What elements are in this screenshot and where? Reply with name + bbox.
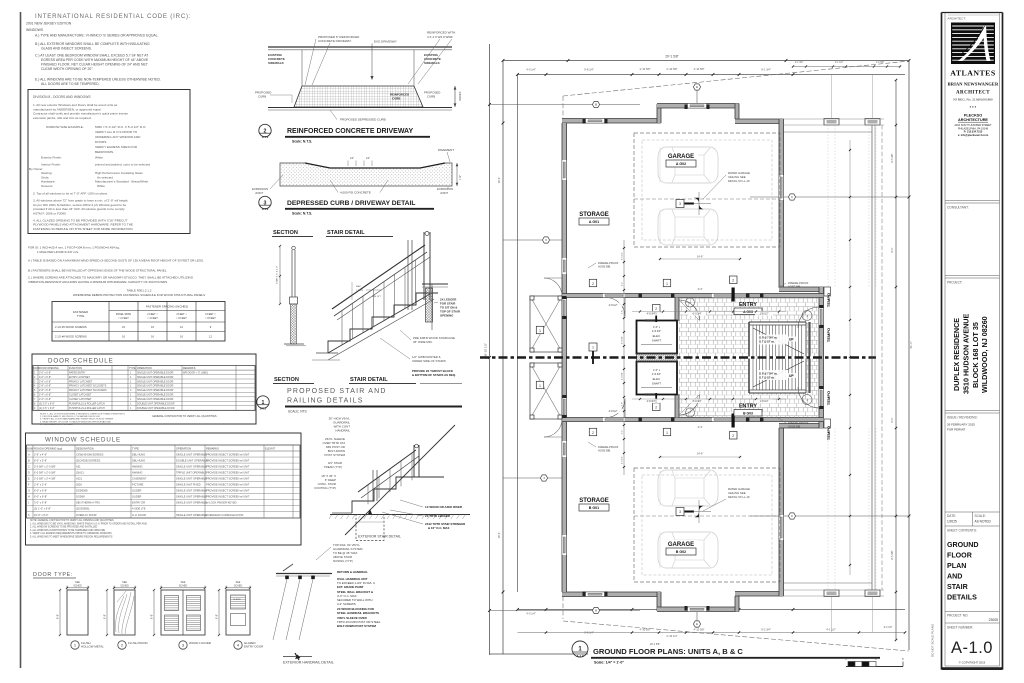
svg-text:POST SYSTEM: POST SYSTEM [324,453,345,457]
svg-text:ELEVNT: ELEVNT [265,446,276,450]
svg-text:PICTURE: PICTURE [132,483,144,487]
svg-text:2'-0 5/8" x 2'-4 3/8": 2'-0 5/8" x 2'-4 3/8" [34,476,56,480]
svg-text:CURB: CURB [392,97,400,101]
svg-text:A-1.0: A-1.0 [951,639,993,657]
svg-text:DOUBLE UNIT OPERABLE: DOUBLE UNIT OPERABLE [176,458,208,462]
svg-text:SINGLE UNIT OPERABLE: SINGLE UNIT OPERABLE [176,513,207,517]
svg-text:White: White [97,184,105,188]
svg-text:CXW145-E66 EGRESS: CXW145-E66 EGRESS [76,452,104,456]
svg-text:UP: UP [789,338,794,342]
svg-text:NUM: NUM [27,446,33,450]
entry door leaf A [732,288,735,302]
window schedule table [26,433,302,545]
svg-text:Scale: N.T.S.: Scale: N.T.S. [292,212,312,216]
svg-text:14'-6": 14'-6" [697,255,704,259]
svg-text:GARAGE: GARAGE [668,542,694,548]
svg-text:41'-1": 41'-1" [909,341,913,349]
svg-text:1: 1 [539,384,541,388]
svg-text:SHAFT: SHAFT [652,339,661,343]
svg-text:6'-0 3/4": 6'-0 3/4" [693,400,702,403]
svg-text:9'-2 3/4": 9'-2 3/4" [761,628,771,632]
svg-text:2'-8" x 6'-8": 2'-8" x 6'-8" [39,389,51,392]
svg-text:4'-10 5/8": 4'-10 5/8" [694,628,705,632]
svg-text:VERIFY ALL R.O.S PRIOR TO: VERIFY ALL R.O.S PRIOR TO [95,130,138,134]
division 8 notes box [28,90,190,234]
newel post section [292,246,296,250]
elev lobby door arc B [679,395,700,416]
svg-text:UNDER SIDE OF STAIRS: UNDER SIDE OF STAIRS [412,359,446,363]
svg-text:▪ ▪ ▪: ▪ ▪ ▪ [970,104,977,109]
svg-text:1X WOOD OR AZEK RISER: 1X WOOD OR AZEK RISER [425,505,463,509]
svg-text:ELEV.: ELEV. [653,377,661,381]
svg-text:TYPE: TYPE [132,446,139,450]
svg-text:FREEZE-PROOF: FREEZE-PROOF [598,261,619,265]
svg-text:NOSING (TYP): NOSING (TYP) [333,559,353,563]
svg-text:H: H [28,495,30,499]
svg-text:6 FEET <: 6 FEET < [205,313,216,316]
stair A well [749,322,806,357]
svg-text:SCHED: SCHED [234,585,243,588]
east wall lower [779,428,784,582]
svg-text:AWNING: AWNING [132,470,143,474]
svg-text:GARAGE: GARAGE [668,154,694,160]
NE corner post [779,119,784,133]
issue box [945,410,1000,412]
svg-text:e: info@plecksoarch.com: e: info@plecksoarch.com [958,134,989,137]
svg-text:VARIES: VARIES [458,91,462,101]
svg-text:< 4 FEET: < 4 FEET [147,317,158,320]
date scale box [945,511,1000,513]
svg-text:1'-6": 1'-6" [459,175,462,180]
svg-text:JOINT: JOINT [440,191,448,195]
svg-text:A G03: A G03 [743,310,753,314]
svg-text:G: G [28,489,30,493]
svg-text:UP: UP [789,374,794,378]
svg-text:EXTERIOR HANDRAIL DETAIL: EXTERIOR HANDRAIL DETAIL [283,661,334,665]
svg-text:1/2025: 1/2025 [947,520,957,524]
svg-text:DETAIL 5X LL-10: DETAIL 5X LL-10 [728,495,750,499]
SE corner post [779,582,784,596]
svg-text:A-1.0: A-1.0 [576,654,584,658]
svg-text:2. ALL WINDOW SCREENS TO BE PR: 2. ALL WINDOW SCREENS TO BE PROVIDED AND… [30,526,98,529]
svg-text:3'-0" x 6'-8": 3'-0" x 6'-8" [34,501,47,505]
svg-text:1'-8 1/2": 1'-8 1/2" [760,313,769,316]
svg-text:4'-5 1/2": 4'-5 1/2" [622,456,624,464]
svg-text:JOINT: JOINT [255,191,263,195]
svg-text:2 1/2 #8 WOOD SCREWS: 2 1/2 #8 WOOD SCREWS [55,334,87,338]
svg-text:DBL HUNG: DBL HUNG [132,458,145,462]
consultant box [945,200,1000,202]
svg-text:SIDEWALK: SIDEWALK [424,61,441,65]
entry east walls connect [779,287,824,292]
west wall [562,123,567,592]
svg-text:4 SIDE LTE: 4 SIDE LTE [132,507,146,511]
svg-text:B G02: B G02 [676,550,686,554]
post extension lines to dim rows [831,75,833,119]
svg-text:3: 3 [679,202,681,206]
east deck dashed overhang [881,125,883,590]
extra jamb marks [639,294,642,298]
svg-text:BRIAN NEWSWANGER: BRIAN NEWSWANGER [948,82,999,87]
svg-text:S80 /THERM-A-TRU: S80 /THERM-A-TRU [76,501,100,505]
svg-text:C: C [791,195,793,199]
east porch posts bottom [824,590,839,597]
svg-text:SINGLE UNIT OPERABLE DOOR: SINGLE UNIT OPERABLE DOOR [137,385,174,388]
svg-text:TYPE: TYPE [129,367,136,370]
elev lobby door arc A [679,300,700,321]
svg-text:SINGLE UNIT OPERABLE: SINGLE UNIT OPERABLE [176,476,207,480]
svg-text:9'-2 1/8": 9'-2 1/8" [884,627,893,629]
svg-text:3'-2": 3'-2" [622,430,624,435]
stair B treads [752,359,754,391]
stair A treads [752,325,754,357]
svg-text:CLOSET LATCHSET: CLOSET LATCHSET [69,398,92,401]
garage A label [664,152,698,159]
svg-text:PANEL SPAN: PANEL SPAN [116,313,131,316]
svg-text:FREEZE-PROOF: FREEZE-PROOF [788,421,809,425]
svg-text:SINGLE UNIT OPERABLE: SINGLE UNIT OPERABLE [176,452,207,456]
grid hexagons [490,104,641,106]
svg-text:ENTRY LATCHSET: ENTRY LATCHSET [69,376,91,379]
svg-text:PAVEMENT: PAVEMENT [438,148,454,152]
svg-text:4'-8 3/4": 4'-8 3/4" [652,373,661,376]
logo A glyph [958,26,991,62]
svg-text:2: 2 [655,406,657,410]
svg-text:SGD68: SGD68 [76,495,85,499]
svg-text:5. ALL WINDOWS TO MEET WINDBOR: 5. ALL WINDOWS TO MEET WINDBORNE DEBRIS … [30,536,113,539]
svg-text:REINFORCED CONCRETE DRIVEWAY: REINFORCED CONCRETE DRIVEWAY [287,128,413,135]
svg-text:1. ALL WINDOWS TO BE VINYL WI: 1. ALL WINDOWS TO BE VINYL WINDOWS, WHIT… [30,522,148,525]
svg-text:2: 2 [732,434,734,438]
svg-text:HOSE BIB: HOSE BIB [598,449,611,453]
svg-text:2'-4" x 6'-8": 2'-4" x 6'-8" [39,394,51,397]
handrail section mark [283,656,312,658]
svg-text:& 16" O.C. MAX: & 16" O.C. MAX [428,526,450,530]
svg-text:SINGLE UNIT OPERABLE DOOR: SINGLE UNIT OPERABLE DOOR [137,394,174,397]
svg-text:SINGLE UNIT OPERABLE: SINGLE UNIT OPERABLE [176,489,207,493]
svg-text:E: E [28,476,30,480]
svg-text:SINGLE UNIT OPERABLE DOOR: SINGLE UNIT OPERABLE DOOR [137,376,174,379]
svg-text:A21: A21 [76,464,81,468]
front door arc A [798,307,819,328]
svg-text:3. ALL WINDOWS IN BATHROOMS TO: 3. ALL WINDOWS IN BATHROOMS TO BE TEMPER… [30,529,106,532]
svg-text:4'-8 3/4": 4'-8 3/4" [622,336,624,344]
svg-text:E: E [696,85,698,89]
graphic scale bar [846,666,903,668]
east deck edge [871,125,873,590]
svg-text:4. HEAD HEIGHT OF DOOR TO MATC: 4. HEAD HEIGHT OF DOOR TO MATCH WINDOWS … [40,420,111,423]
svg-text:1: 1 [592,346,594,350]
svg-text:SINGLE UNIT OPERABLE: SINGLE UNIT OPERABLE [176,501,207,505]
svg-text:B.) FASTENERS SHALL BE INSTALL: B.) FASTENERS SHALL BE INSTALLED AT OPPO… [28,269,167,273]
svg-text:E.) ALL WINDOWS ARE TO BE NON: E.) ALL WINDOWS ARE TO BE NON-TEMPERED U… [35,78,161,82]
svg-text:5050 = 5'-0 1/2" R.O. X 5'-0 1: 5050 = 5'-0 1/2" R.O. X 5'-0 1/2" R.O. [95,125,146,129]
svg-text:4'-1 1/2": 4'-1 1/2" [826,628,836,632]
svg-text:C.) AT LEAST ONE BEDROOM WIND: C.) AT LEAST ONE BEDROOM WINDOW SHALL EX… [35,54,148,58]
svg-text:w/ LOCK FINGER-KEYED: w/ LOCK FINGER-KEYED [206,501,237,505]
svg-text:© COPYRIGHT 2019: © COPYRIGHT 2019 [959,661,986,665]
svg-text:2'-6" x 4'-6": 2'-6" x 4'-6" [34,452,47,456]
svg-text:GLASS AND INSECT SCREENS.: GLASS AND INSECT SCREENS. [41,47,92,51]
svg-text:HOSE BIB: HOSE BIB [598,265,611,269]
garage A dashed boundary [634,133,780,247]
svg-text:CLOSET LATCHSET: CLOSET LATCHSET [69,394,92,397]
svg-text:TEMPO: TEMPO [826,328,831,342]
svg-text:A: A [28,452,30,456]
svg-text:STAIR 3'-6" & 3'-0": STAIR 3'-6" & 3'-0" [276,266,279,284]
svg-text:A G02: A G02 [676,162,686,166]
west wall porch door B [562,397,567,417]
svg-text:TEMPO: TEMPO [826,426,831,440]
title block borders [941,13,943,670]
svg-text:WINDBORNE DEBRIS PROTECTION FA: WINDBORNE DEBRIS PROTECTION FASTENING SC… [73,293,205,297]
svg-text:WINDOW SIZE EXAMPLE:: WINDOW SIZE EXAMPLE: [46,125,84,129]
keynote 2 boxes at elevator [653,305,661,313]
svg-text:2: 2 [655,307,657,311]
svg-text:4'-1 3/4": 4'-1 3/4" [795,62,804,64]
svg-text:3510 HUDSON AVENUE: 3510 HUDSON AVENUE [961,314,970,394]
svg-text:2 1/2 #6 WOOD SCREWS: 2 1/2 #6 WOOD SCREWS [55,325,87,329]
svg-text:(2)S2068SL: (2)S2068SL [76,507,90,511]
svg-text:5. FIBERGLASS DOOR INSTALL: 5. FIBERGLASS DOOR INSTALL [40,423,73,426]
svg-text:TEMPO: TEMPO [826,391,831,405]
unit A north wall low band [562,119,661,124]
svg-text:DETAIL 5X LL-10: DETAIL 5X LL-10 [728,179,750,183]
svg-text:(2)CH3050 EGRESS: (2)CH3050 EGRESS [76,458,100,462]
svg-text:B: B [595,609,597,613]
svg-text:ENTRY: ENTRY [739,404,757,410]
svg-text:36" WIDE MIN.: 36" WIDE MIN. [413,340,433,344]
svg-text:(2) 1'-0" x 6'-8": (2) 1'-0" x 6'-8" [34,507,51,511]
svg-text:STAIR DETAIL: STAIR DETAIL [327,230,365,236]
plan outer dimension boundary [489,44,491,655]
door schedule table [32,354,256,424]
svg-text:SINGLE UNIT FIXED: SINGLE UNIT FIXED [176,483,201,487]
svg-text:11 R @ 7 3/4" ea.: 11 R @ 7 3/4" ea. [759,373,778,376]
svg-text:SINGLE UNIT OPERABLE DOOR: SINGLE UNIT OPERABLE DOOR [137,371,174,374]
svg-text:DO NOT SCALE PLANS: DO NOT SCALE PLANS [931,624,935,657]
svg-text:8'-5 3/8": 8'-5 3/8" [891,550,894,559]
svg-text:SHAFT: SHAFT [652,382,661,386]
interior dim chain vertical right [849,140,851,575]
svg-text:SINGLE UNIT OPERABLE DOOR: SINGLE UNIT OPERABLE DOOR [137,398,174,401]
svg-text:PROVIDE INSECT SCREEN w/ UNIT: PROVIDE INSECT SCREEN w/ UNIT [206,495,250,499]
svg-text:STEEL HANDRAIL BRACKETS: STEEL HANDRAIL BRACKETS [337,611,379,615]
svg-text:2'-4": 2'-4" [698,426,703,429]
svg-text:DOOR SCHEDULE: DOOR SCHEDULE [48,358,114,365]
svg-text:PRIVACY LATCHSET: PRIVACY LATCHSET [69,380,93,383]
east wall upper [779,133,784,287]
svg-text:Interior Finish:: Interior Finish: [41,163,61,167]
svg-text:RETURN & HANDRAIL: RETURN & HANDRAIL [337,570,368,574]
svg-text:2'-8": 2'-8" [622,310,624,315]
entry west wall segment A [675,298,679,322]
svg-text:A221: A221 [76,476,83,480]
entry door leaf B [732,414,735,428]
wall jamb marks [583,119,586,124]
svg-text:TREAD (TYP): TREAD (TYP) [324,465,342,469]
garage A north wall [657,104,739,109]
svg-text:PRIVACY LATCHSET S/CLOSETS: PRIVACY LATCHSET S/CLOSETS [69,385,107,388]
deck post guide dotted lines [827,125,829,287]
svg-text:4. VERIFY ALL EGRESS REQUIREME: 4. VERIFY ALL EGRESS REQUIREMENTS PRIOR … [30,532,112,535]
svg-text:WINDOW SCHEDULE: WINDOW SCHEDULE [45,437,121,444]
svg-text:NOTE: 1. ALL DOOR HOUSE/SHIEL: NOTE: 1. ALL DOOR HOUSE/SHIELD HINGES/CL… [40,413,125,416]
svg-text:PROVIDE INSECT SCREEN w/ UNIT: PROVIDE INSECT SCREEN w/ UNIT [206,452,250,456]
svg-text:3. VERIFY ALL DOOR HARDWARE AN: 3. VERIFY ALL DOOR HARDWARE AND FINISH S… [40,418,114,421]
keynote 2 at entry doors [730,276,738,284]
svg-text:SINGLE UNIT OPERABLE DOOR: SINGLE UNIT OPERABLE DOOR [137,380,174,383]
svg-text:3-2" SCREWS: 3-2" SCREWS [337,602,356,606]
svg-text:STORAGE: STORAGE [579,498,609,504]
svg-text:SCALE: NTS: SCALE: NTS [288,410,307,414]
svg-text:CURB: CURB [258,95,266,99]
svg-text:D: D [28,470,30,474]
svg-text:2. Top of all windows to be at: 2. Top of all windows to be at 7'-0" AFF… [33,192,108,196]
svg-text:SLIDER: SLIDER [132,495,141,499]
svg-text:1'-8 1/2": 1'-8 1/2" [760,400,769,403]
svg-text:4'-10 5/8": 4'-10 5/8" [640,67,651,71]
svg-text:SINGLE UNIT OPERABLE: SINGLE UNIT OPERABLE [176,464,207,468]
svg-text:12: 12 [209,334,212,338]
svg-text:ELEV.: ELEV. [653,334,661,338]
svg-text:RAILING DETAILS: RAILING DETAILS [287,398,364,405]
unit B south wall jog [657,592,661,611]
svg-text:PROVIDE INSECT SCREEN w/ UNIT: PROVIDE INSECT SCREEN w/ UNIT [206,470,250,474]
svg-text:TYPE: TYPE [77,314,85,318]
stair landing edges [805,322,807,357]
svg-text:White: White [95,156,103,160]
svg-text:DIVISION 8 - DOORS AND WINDOWS: DIVISION 8 - DOORS AND WINDOWS [33,95,91,99]
svg-text:extension jambs, sills and tri: extension jambs, sills and trim as requi… [33,116,92,120]
west porch deck B [530,363,562,419]
porch door arc A [544,278,562,296]
svg-text:PROVIDE INSECT SCREEN w/ UNIT: PROVIDE INSECT SCREEN w/ UNIT [206,489,250,493]
svg-text:DESIGNATION: DESIGNATION [76,446,94,450]
svg-text:FREEZE-PROOF: FREEZE-PROOF [598,445,619,449]
party wall hatched center [637,354,678,362]
svg-text:3'-0" x 6'-8": 3'-0" x 6'-8" [39,376,51,379]
svg-text:16: 16 [151,334,154,338]
svg-text:TEMPO: TEMPO [826,293,831,307]
svg-text:4 X 4 X W2.9 WWF: 4 X 4 X W2.9 WWF [427,35,453,39]
svg-text:GROUND FLOOR PLANS: UNITS A, B: GROUND FLOOR PLANS: UNITS A, B & C [593,647,743,656]
reinforced concrete driveway detail [268,46,452,48]
svg-text:FREEZE-PROOF: FREEZE-PROOF [788,281,809,285]
svg-text:PROVIDE INSECT SCREEN w/ UNIT: PROVIDE INSECT SCREEN w/ UNIT [206,476,250,480]
svg-text:2'-10 5/8": 2'-10 5/8" [667,67,678,71]
svg-text:DBL HUNG: DBL HUNG [132,452,145,456]
svg-text:PLAN: PLAN [947,562,966,570]
svg-text:CONSULTANT:: CONSULTANT: [947,206,969,210]
east porch mid posts [824,287,831,296]
svg-text:< 8 FEET: < 8 FEET [205,317,216,320]
svg-text:O.H. DOOR: O.H. DOOR [132,513,146,517]
garage B dashed boundary [634,468,780,582]
svg-text:< 6 FEET: < 6 FEET [176,317,187,320]
svg-text:8'-1": 8'-1" [891,247,894,252]
svg-text:26 FEBRUARY 2025: 26 FEBRUARY 2025 [947,423,975,427]
sheet left border [20,12,22,668]
exterior handrail detail drawing [276,573,332,575]
svg-text:SECTION: SECTION [273,230,298,236]
svg-text:AWNING: AWNING [132,464,143,468]
svg-text:4,000 PSI CONCRETE: 4,000 PSI CONCRETE [340,191,371,195]
svg-text:4'-5 1/2": 4'-5 1/2" [622,252,624,260]
plan title [572,641,588,657]
svg-text:2: 2 [592,431,594,435]
svg-text:3'-0" x 6'-8": 3'-0" x 6'-8" [39,371,51,374]
svg-text:B: B [595,103,597,107]
svg-text:C.) WHERE SCREWS ARE ATTACHED: C.) WHERE SCREWS ARE ATTACHED TO MASONRY… [28,276,194,280]
svg-text:PROVIDE INSECT SCREEN w/ UNIT: PROVIDE INSECT SCREEN w/ UNIT [206,464,250,468]
car A2 [658,209,718,245]
svg-text:TRIPLE UNIT OPERABLE: TRIPLE UNIT OPERABLE [176,470,207,474]
svg-text:PROVIDE INSECT SCREEN w/ UNIT: PROVIDE INSECT SCREEN w/ UNIT [206,458,250,462]
svg-text:GROUND: GROUND [947,541,979,549]
porch beam lines [784,118,885,120]
svg-text:B G03: B G03 [743,412,753,416]
svg-text:PRIVACY LATCHSET S/LOUVERS: PRIVACY LATCHSET S/LOUVERS [69,389,107,392]
svg-text:7 3/4"R: 7 3/4"R [356,290,364,292]
svg-text:4'-8 1/2": 4'-8 1/2" [609,304,618,307]
garage side door arc B [606,399,625,418]
svg-text:VIBRATION-RESISTANT ANCHORS HA: VIBRATION-RESISTANT ANCHORS HAVING A MIN… [28,280,168,284]
entry front wall [819,287,824,428]
svg-text:4'-8 1/2": 4'-8 1/2" [609,410,618,413]
car B1 [658,532,718,568]
detail 2 title [259,124,271,136]
svg-text:SINGLE UNIT OPERABLE: SINGLE UNIT OPERABLE [176,495,207,499]
project no box [945,611,1000,613]
svg-text:Scale: N.T.S.: Scale: N.T.S. [292,140,312,144]
svg-text:FOR SI: 1 INCH=25.4 mm, 1 F: FOR SI: 1 INCH=25.4 mm, 1 FOOT=304.8 mm,… [28,246,120,250]
svg-text:E: E [696,622,698,626]
car A1 [658,147,718,183]
svg-text:A-1.0: A-1.0 [262,207,269,211]
svg-text:REMARKS: REMARKS [206,446,219,450]
svg-text:C: C [28,464,30,468]
svg-text:ISSUE / REVISIONS:: ISSUE / REVISIONS: [947,416,978,420]
svg-text:OPERATION: OPERATION [176,446,191,450]
svg-text:VERIFY EGRESS SIZES FOR: VERIFY EGRESS SIZES FOR [95,145,138,149]
svg-text:6'-0" x 5'-6": 6'-0" x 5'-6" [34,458,47,462]
svg-text:A.) TYPE AND MANUFACTURE: VI-: A.) TYPE AND MANUFACTURE: VI-WINCO 'S' S… [35,34,159,38]
svg-text:2626: 2626 [76,483,82,487]
svg-text:(3)A21: (3)A21 [76,470,84,474]
svg-text:6'-8": 6'-8" [150,614,154,619]
svg-text:PROJECT:: PROJECT: [947,281,963,285]
stair detail drawing [328,293,438,353]
svg-text:STORAGE: STORAGE [579,212,609,218]
interior wall garage/entry A [562,294,824,298]
svg-text:HOSE BIB: HOSE BIB [788,285,801,289]
svg-text:& BOTTOM OF STAIRS AS REQ.: & BOTTOM OF STAIRS AS REQ. [412,373,456,377]
svg-text:B: B [28,458,30,462]
svg-text:DOOR TYPE:: DOOR TYPE: [33,572,73,578]
svg-text:STAIR: STAIR [947,583,968,591]
garage B label [664,540,698,547]
svg-text:12: 12 [180,325,183,329]
svg-text:DATE:: DATE: [947,514,956,518]
svg-text:29'-1 5/8": 29'-1 5/8" [665,55,678,59]
svg-text:TABLE R301.2.1.2: TABLE R301.2.1.2 [127,289,152,293]
svg-text:CLEAR WIDTH OPENING OF 20".: CLEAR WIDTH OPENING OF 20". [41,67,94,71]
garage side door arc A [606,298,625,317]
entry dim ticks [639,310,641,312]
svg-text:SGD6068: SGD6068 [76,489,88,493]
svg-text:DOUBLE UNIT OPERABLE DOOR: DOUBLE UNIT OPERABLE DOOR [137,407,175,410]
